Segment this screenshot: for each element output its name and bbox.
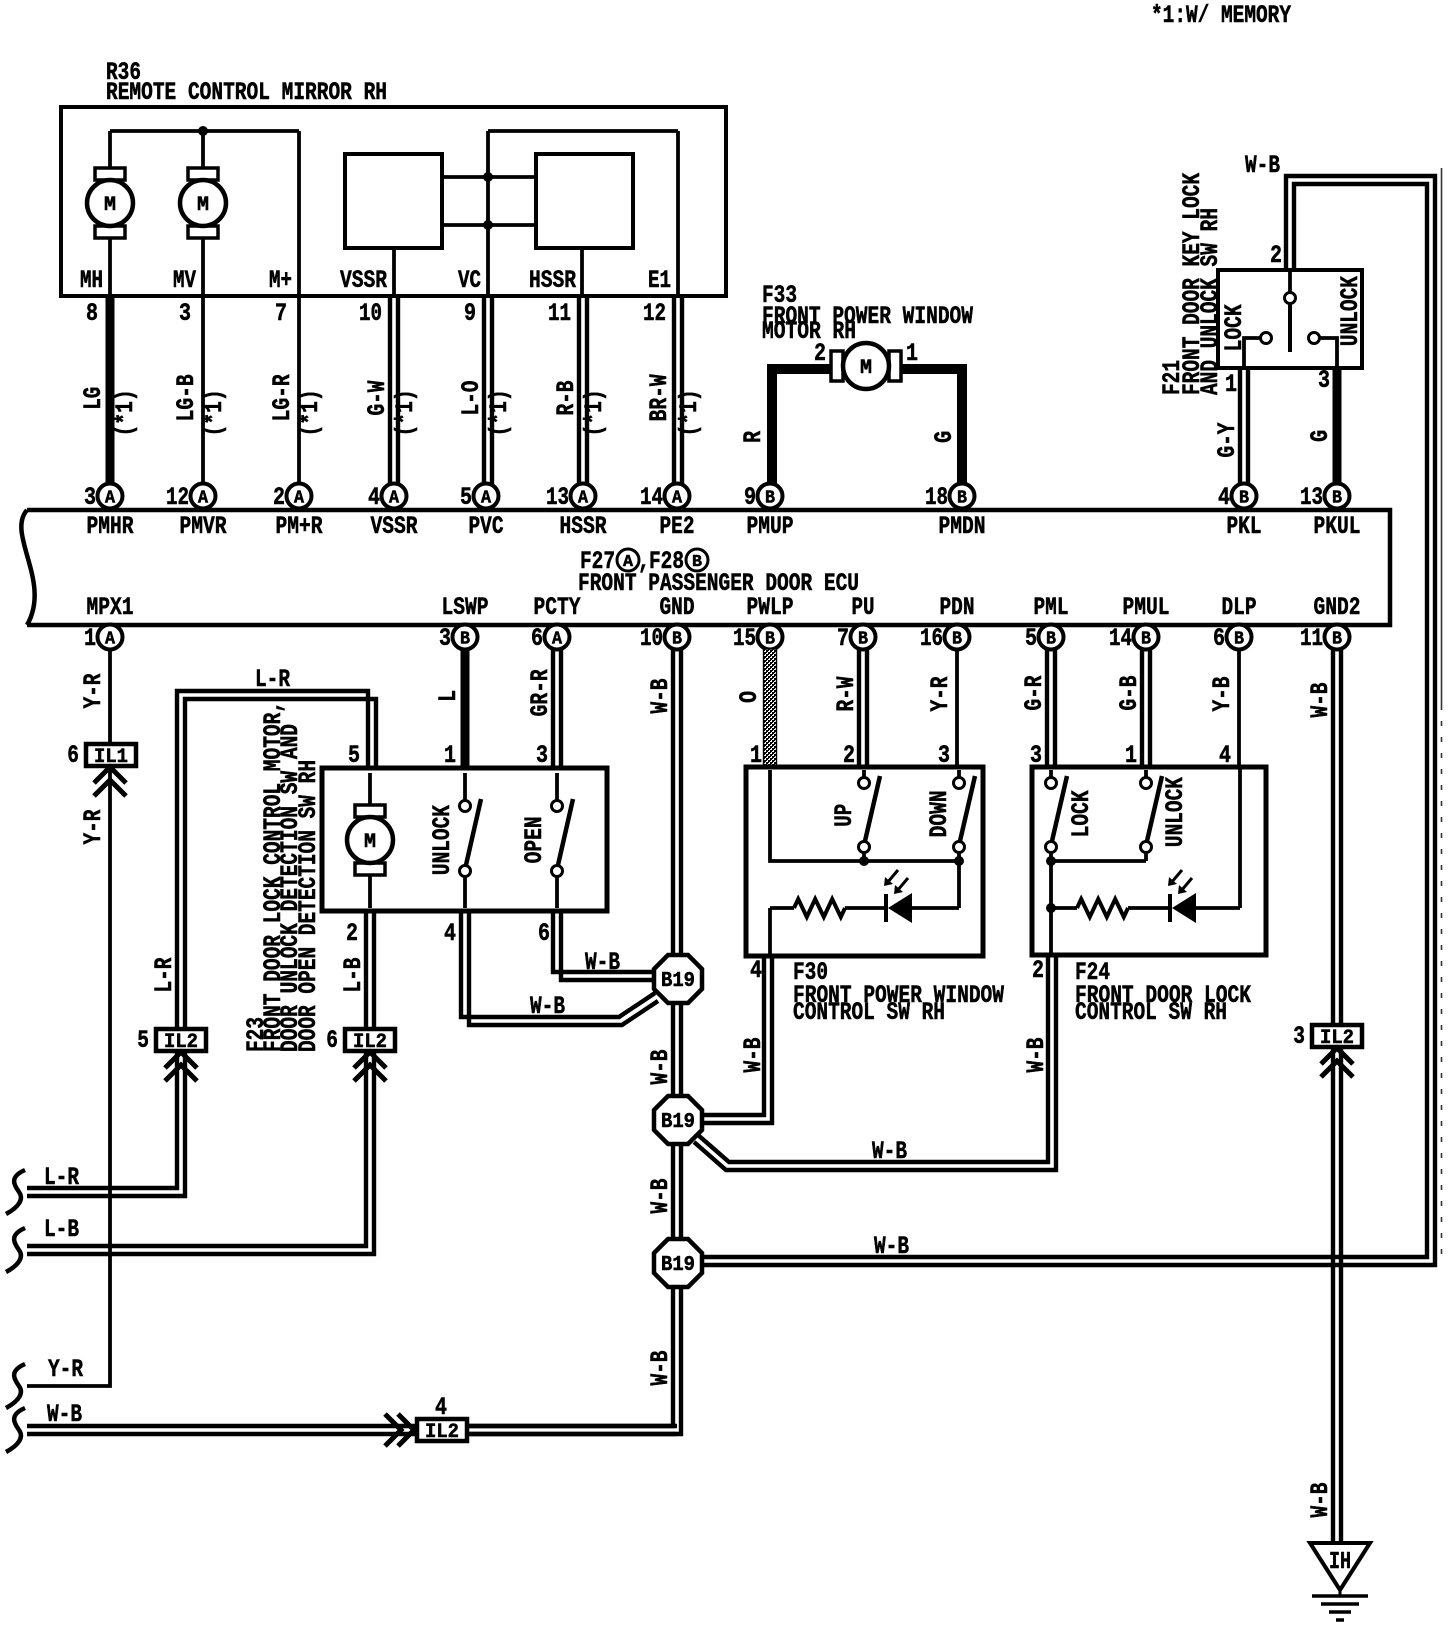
wire W-B double (GND2 down to ground): [1331, 649, 1335, 1543]
svg-text:PDN: PDN: [940, 593, 975, 622]
svg-text:UP: UP: [830, 804, 859, 827]
svg-text:REMOTE CONTROL MIRROR RH: REMOTE CONTROL MIRROR RH: [106, 78, 387, 107]
svg-text:DLP: DLP: [1222, 593, 1257, 622]
svg-text:LG: LG: [79, 387, 108, 410]
svg-text:G: G: [1306, 430, 1335, 442]
wire between blocks upper: [442, 175, 536, 179]
svg-text:PMHR: PMHR: [87, 512, 134, 541]
svg-text:7: 7: [837, 624, 849, 653]
svg-text:5: 5: [348, 741, 360, 770]
svg-text:PML: PML: [1034, 593, 1069, 622]
svg-text:MH: MH: [80, 266, 103, 295]
F24 front door lock control sw RH box: [1032, 767, 1266, 955]
ECU bottom pin 6(B) DLP: [1227, 625, 1252, 650]
svg-text:5: 5: [1025, 624, 1037, 653]
ECU front passenger door ECU box: [27, 510, 1390, 625]
svg-text:B: B: [1332, 489, 1342, 509]
wire G thick: [1333, 368, 1342, 484]
F23 front door lock control motor box: [322, 768, 607, 911]
ECU bottom pin 16(B) PDN: [945, 625, 970, 650]
F21 front door key lock and unlock sw RH box: [1218, 270, 1362, 368]
svg-text:6: 6: [538, 919, 550, 948]
wire L-B double from IL2 down to left edge: [27, 1051, 366, 1246]
svg-text:12: 12: [166, 483, 189, 512]
svg-text:4: 4: [444, 919, 456, 948]
ECU bottom pin 7(B) PU: [851, 625, 876, 650]
svg-text:M: M: [364, 831, 376, 854]
motor F33: [831, 351, 843, 381]
svg-text:B: B: [1046, 630, 1056, 650]
IL2-6 chevrons: [354, 1052, 386, 1068]
svg-text:VSSR: VSSR: [340, 266, 387, 295]
svg-text:L-O: L-O: [457, 381, 486, 416]
svg-text:2: 2: [843, 741, 855, 770]
svg-text:5: 5: [137, 1026, 149, 1055]
svg-text:E1: E1: [648, 266, 671, 295]
svg-text:6: 6: [326, 1026, 338, 1055]
junction UP common: [859, 856, 869, 866]
IL2-4 chevrons: [398, 1414, 414, 1446]
wire motor MH top riser: [108, 131, 112, 168]
F24 UNLOCK switch: [1144, 770, 1148, 777]
svg-text:L: L: [434, 690, 463, 702]
svg-text:6: 6: [67, 741, 79, 770]
svg-text:L-B: L-B: [44, 1215, 79, 1244]
svg-text:Y-R: Y-R: [48, 1355, 83, 1384]
svg-text:A: A: [481, 489, 491, 509]
svg-text:2: 2: [1270, 241, 1282, 270]
svg-text:B: B: [1332, 630, 1342, 650]
LED F30 illumination: [884, 894, 888, 922]
svg-text:PKUL: PKUL: [1314, 512, 1361, 541]
svg-text:A: A: [672, 489, 682, 509]
F24 common rail: [1051, 859, 1146, 863]
svg-text:UNLOCK: UNLOCK: [1336, 276, 1365, 346]
ground IH triangle: [1310, 1543, 1370, 1590]
wire W-B B19 2-3: [671, 1143, 675, 1240]
wire mirror motors common top: [110, 129, 299, 133]
svg-text:LSWP: LSWP: [442, 593, 489, 622]
wire VC riser: [486, 131, 490, 296]
svg-text:L-R: L-R: [150, 958, 179, 993]
svg-text:G-B: G-B: [1115, 676, 1144, 711]
svg-text:3: 3: [1030, 741, 1042, 770]
svg-text:GND2: GND2: [1314, 593, 1361, 622]
svg-text:M: M: [197, 194, 209, 217]
svg-text:2: 2: [814, 339, 826, 368]
svg-text:Y-R: Y-R: [79, 810, 108, 845]
F30 UP switch: [862, 770, 866, 777]
svg-text:A: A: [552, 630, 562, 650]
LED F24 illumination: [1168, 894, 1172, 922]
svg-text:A: A: [105, 630, 115, 650]
junction motors common: [198, 126, 208, 136]
F30 front power window control sw RH box: [746, 767, 983, 956]
svg-text:1: 1: [444, 741, 456, 770]
svg-text:VSSR: VSSR: [371, 512, 418, 541]
svg-text:4: 4: [750, 956, 762, 985]
wire W-B double (GND to B19): [671, 649, 675, 957]
svg-text:11: 11: [548, 299, 571, 328]
wire G-R double (PML): [1045, 649, 1049, 767]
svg-text:6: 6: [531, 624, 543, 653]
continuation squiggle W-B: [6, 1408, 25, 1452]
svg-text:CONTROL SW RH: CONTROL SW RH: [793, 998, 945, 1027]
svg-text:3: 3: [179, 299, 191, 328]
svg-text:M+: M+: [269, 266, 292, 295]
svg-text:LG-B: LG-B: [172, 374, 201, 421]
junction DOWN common: [954, 856, 964, 866]
svg-text:B: B: [1239, 489, 1249, 509]
wire L-B double from F23 pin2: [364, 911, 368, 1029]
svg-text:PE2: PE2: [660, 512, 695, 541]
wire W-B from F21 pin2 around right edge to B19: [702, 184, 1427, 1257]
svg-text:9: 9: [464, 299, 476, 328]
IL2-3 chevrons: [1321, 1048, 1353, 1064]
svg-text:B19: B19: [661, 1111, 695, 1134]
svg-text:GND: GND: [660, 593, 695, 622]
junction connector B19 no.2: [654, 1096, 702, 1144]
wire M+ riser: [297, 131, 301, 296]
svg-text:1: 1: [1125, 741, 1137, 770]
wire VC to E1 top: [488, 129, 678, 133]
ground symbol hatch: [1339, 1590, 1342, 1596]
svg-text:R: R: [739, 431, 768, 443]
continuation squiggle L-R: [6, 1170, 25, 1214]
svg-text:B: B: [765, 489, 775, 509]
svg-text:7: 7: [275, 299, 287, 328]
svg-text:6: 6: [1213, 624, 1225, 653]
svg-text:3: 3: [84, 483, 96, 512]
mirror motor MV: [188, 168, 218, 180]
connector 6 IL2: [345, 1029, 395, 1051]
svg-text:4: 4: [435, 1393, 447, 1422]
F30 pin1 rail: [770, 770, 959, 861]
svg-text:MV: MV: [173, 266, 196, 295]
junction connector B19 no.3: [654, 1239, 702, 1287]
svg-text:3: 3: [938, 741, 950, 770]
svg-text:PWLP: PWLP: [747, 593, 794, 622]
svg-text:M: M: [104, 194, 116, 217]
svg-text:IH: IH: [1329, 1549, 1351, 1576]
svg-text:1: 1: [84, 624, 96, 653]
svg-text:B: B: [1234, 630, 1244, 650]
svg-text:B: B: [1141, 630, 1151, 650]
svg-text:14: 14: [1109, 624, 1132, 653]
wire L thick (LSWP): [461, 649, 470, 768]
wire O thick shaded (PWLP): [764, 649, 777, 767]
svg-text:G-R: G-R: [1020, 676, 1049, 711]
svg-text:16: 16: [920, 624, 943, 653]
wire GR-R double (PCTY): [551, 649, 555, 768]
wire W-B IL2-4 to B19 riser: [467, 1424, 677, 1428]
svg-text:PMUP: PMUP: [747, 512, 794, 541]
svg-text:Y-B: Y-B: [1208, 677, 1237, 712]
wire W-B F30 pin4 to B19-2: [701, 956, 764, 1115]
svg-text:OPEN: OPEN: [520, 816, 549, 863]
R36 remote control mirror RH box: [61, 107, 726, 296]
svg-text:Y-R: Y-R: [79, 674, 108, 709]
svg-text:HSSR: HSSR: [560, 512, 607, 541]
svg-text:5: 5: [460, 483, 472, 512]
svg-text:W-B: W-B: [872, 1137, 907, 1166]
ECU top pin 13(B) PKUL: [1325, 484, 1350, 509]
F23 motor stub top: [368, 773, 372, 805]
svg-text:B: B: [952, 630, 962, 650]
junction VC upper: [483, 172, 493, 182]
wire G-W (VSSR) double: [388, 296, 392, 484]
ECU top pin 18(B) PMDN: [950, 484, 975, 509]
svg-text:G-Y: G-Y: [1213, 423, 1242, 458]
svg-text:(*1): (*1): [200, 389, 229, 436]
svg-text:A: A: [389, 489, 399, 509]
ECU bottom pin 14(B) PMUL: [1134, 625, 1159, 650]
svg-text:A: A: [578, 489, 588, 509]
svg-text:PCTY: PCTY: [534, 593, 581, 622]
F23 door lock motor: [355, 805, 385, 817]
svg-text:18: 18: [925, 483, 948, 512]
svg-text:(*1): (*1): [675, 389, 704, 436]
svg-text:W-B: W-B: [585, 948, 620, 977]
svg-text:B: B: [460, 630, 470, 650]
svg-text:13: 13: [1300, 483, 1323, 512]
svg-text:B19: B19: [661, 970, 695, 993]
ECU top pin 4(A) VSSR: [382, 484, 407, 509]
ECU bottom pin 10(B) GND: [665, 625, 690, 650]
wire G-Y double: [1238, 368, 1242, 484]
svg-text:(*1): (*1): [391, 389, 420, 436]
svg-text:W-B: W-B: [646, 1050, 675, 1085]
svg-text:10: 10: [359, 299, 382, 328]
svg-text:PM+R: PM+R: [276, 512, 323, 541]
F30 illumination row: [957, 861, 961, 908]
resistor F30: [794, 899, 845, 917]
wire R thick (F33 pin2 to PMUP): [772, 369, 834, 484]
svg-text:PKL: PKL: [1227, 512, 1262, 541]
wire R-W double (PU): [857, 649, 861, 767]
wire W-B B19-3 down to IL2-4: [466, 1287, 673, 1426]
wire between blocks lower: [442, 223, 536, 227]
svg-text:BR-W: BR-W: [645, 374, 674, 421]
F21 UNLOCK contact: [1309, 333, 1320, 344]
connector 4 IL2: [417, 1419, 467, 1441]
svg-text:W-B: W-B: [646, 679, 675, 714]
svg-text:2: 2: [346, 919, 358, 948]
F30 DOWN switch: [957, 770, 961, 777]
svg-text:W-B: W-B: [874, 1232, 909, 1261]
svg-text:B: B: [957, 489, 967, 509]
svg-text:PMUL: PMUL: [1123, 593, 1170, 622]
svg-text:IL2: IL2: [425, 1421, 459, 1444]
svg-text:HSSR: HSSR: [529, 266, 576, 295]
junction VC lower: [483, 220, 493, 230]
svg-text:W-B: W-B: [530, 992, 565, 1021]
F21 center switch: [1288, 270, 1292, 292]
sensor block HSSR: [536, 154, 633, 248]
wire L-R double from F23 pin5 up-left-down to IL2: [177, 691, 368, 1029]
svg-text:B: B: [858, 630, 868, 650]
continuation squiggle L-B: [6, 1228, 25, 1272]
ECU top pin 9(B) PMUP: [758, 484, 783, 509]
F23 motor stub bottom: [368, 875, 372, 908]
svg-text:11: 11: [1300, 624, 1323, 653]
svg-text:1: 1: [906, 339, 918, 368]
ECU top pin 12(A) PMVR: [191, 484, 216, 509]
ECU top pin 4(B) PKL: [1232, 484, 1257, 509]
wire LG thick (MH): [106, 296, 115, 484]
wire MV to box edge: [201, 238, 205, 296]
svg-text:FRONT PASSENGER DOOR ECU: FRONT PASSENGER DOOR ECU: [578, 569, 859, 598]
svg-text:1: 1: [750, 741, 762, 770]
svg-text:PU: PU: [852, 593, 875, 622]
svg-text:W-B: W-B: [1306, 1483, 1335, 1518]
svg-text:W-B: W-B: [646, 1179, 675, 1214]
resistor F24: [1077, 899, 1128, 917]
svg-text:O: O: [735, 691, 764, 703]
svg-text:A: A: [198, 489, 208, 509]
scan noise line right edge: [1441, 168, 1443, 705]
ECU top pin 2(A) PM+R: [287, 484, 312, 509]
svg-text:13: 13: [546, 483, 569, 512]
svg-text:L-R: L-R: [44, 1163, 79, 1192]
sensor block VSSR: [345, 154, 442, 248]
wire W-B left edge to IL2-4: [27, 1424, 417, 1428]
wire Y-R from MPX1 down and left: [27, 649, 110, 1386]
svg-text:W-B: W-B: [1022, 1038, 1051, 1073]
svg-text:2: 2: [1032, 956, 1044, 985]
IL1 chevrons: [94, 767, 126, 783]
svg-text:MOTOR RH: MOTOR RH: [762, 317, 856, 346]
svg-text:PMDN: PMDN: [939, 512, 986, 541]
svg-text:(*1): (*1): [580, 389, 609, 436]
wire motor MV top riser: [201, 131, 205, 168]
svg-text:UNLOCK: UNLOCK: [1161, 777, 1190, 847]
F23 UNLOCK detection switch: [463, 773, 467, 800]
svg-text:(*1): (*1): [485, 389, 514, 436]
svg-text:L-R: L-R: [255, 665, 290, 694]
svg-text:PVC: PVC: [469, 512, 504, 541]
ECU top pin 14(A) PE2: [665, 484, 690, 509]
wire G-B double (PMUL): [1140, 649, 1144, 767]
wire HSSR block drop: [580, 248, 584, 296]
svg-text:15: 15: [733, 624, 756, 653]
svg-text:A: A: [294, 489, 304, 509]
svg-text:3: 3: [1318, 366, 1330, 395]
svg-text:10: 10: [640, 624, 663, 653]
svg-text:LOCK: LOCK: [1067, 790, 1096, 837]
junction connector B19 no.1: [654, 955, 702, 1003]
ECU bottom pin 1(A) MPX1: [98, 625, 123, 650]
connector 5 IL2: [156, 1029, 206, 1051]
svg-text:R-W: R-W: [832, 677, 861, 712]
wire LG-R (M+): [297, 296, 301, 484]
svg-text:LOCK: LOCK: [1220, 304, 1249, 351]
svg-text:4: 4: [368, 483, 380, 512]
wire W-B F24 pin2 to B19-2: [698, 956, 1048, 1162]
F24 LOCK switch: [1049, 770, 1053, 777]
svg-text:3: 3: [536, 741, 548, 770]
wire MH to box edge: [108, 238, 112, 296]
svg-text:W-B: W-B: [739, 1038, 768, 1073]
ECU bottom pin 5(B) PML: [1039, 625, 1064, 650]
svg-text:4: 4: [1219, 741, 1231, 770]
wire L-R double from IL2 down to left edge: [27, 1051, 177, 1188]
wire Y-B (DLP): [1237, 649, 1241, 767]
wire L-O (VC) double: [482, 296, 486, 484]
svg-text:*1:W/ MEMORY: *1:W/ MEMORY: [1151, 1, 1291, 30]
svg-text:DOWN: DOWN: [925, 790, 954, 837]
wire VSSR block drop: [392, 248, 396, 296]
wire BR-W (E1) double: [672, 296, 676, 484]
svg-text:3: 3: [439, 624, 451, 653]
F24 pin4 riser: [1238, 767, 1242, 908]
svg-text:B: B: [765, 630, 775, 650]
svg-text:L-B: L-B: [339, 958, 368, 993]
wire G thick (F33 pin1 to PMDN): [898, 369, 962, 484]
svg-text:W-B: W-B: [47, 1400, 82, 1429]
svg-text:Y-R: Y-R: [926, 677, 955, 712]
ECU top pin 3(A) PMHR: [98, 484, 123, 509]
svg-text:G-W: G-W: [363, 381, 392, 416]
svg-text:M: M: [860, 357, 872, 380]
svg-text:2: 2: [273, 483, 285, 512]
F24 illumination row: [1051, 906, 1077, 910]
svg-text:B: B: [672, 630, 682, 650]
continuation squiggle Y-R: [6, 1364, 25, 1408]
svg-text:(*1): (*1): [111, 389, 140, 436]
wire W-B from F23 pin6 to B19: [553, 911, 655, 972]
wire W-B B19 1-2: [671, 1003, 675, 1097]
svg-text:9: 9: [744, 483, 756, 512]
svg-text:VC: VC: [458, 266, 481, 295]
svg-text:PMVR: PMVR: [180, 512, 227, 541]
svg-text:W-B: W-B: [1245, 151, 1280, 180]
svg-text:8: 8: [86, 299, 98, 328]
ECU bottom pin 11(B) GND2: [1325, 625, 1350, 650]
svg-text:GR-R: GR-R: [526, 669, 555, 716]
svg-text:R-B: R-B: [552, 381, 581, 416]
svg-text:DOOR OPEN DETECTION SW RH: DOOR OPEN DETECTION SW RH: [294, 760, 323, 1052]
svg-text:4: 4: [1218, 483, 1230, 512]
ECU bottom pin 3(B) LSWP: [453, 625, 478, 650]
svg-text:B19: B19: [661, 1254, 695, 1277]
wire R-B (HSSR) double: [577, 296, 581, 484]
ECU bottom pin 15(B) PWLP: [758, 625, 783, 650]
ECU top pin 13(A) HSSR: [571, 484, 596, 509]
svg-text:1: 1: [1225, 370, 1237, 399]
svg-text:MPX1: MPX1: [87, 593, 134, 622]
connector 6 IL1: [86, 744, 136, 766]
svg-text:CONTROL SW RH: CONTROL SW RH: [1075, 998, 1227, 1027]
ECU top pin 5(A) PVC: [474, 484, 499, 509]
F30 pin4 drop: [768, 908, 772, 954]
svg-text:UNLOCK: UNLOCK: [428, 805, 457, 875]
connector 3 IL2: [1312, 1025, 1362, 1047]
svg-text:W-B: W-B: [1306, 683, 1335, 718]
wire LG-B (MV): [201, 296, 205, 484]
svg-text:3: 3: [1293, 1022, 1305, 1051]
F23 OPEN detection switch: [555, 773, 559, 800]
ECU bottom pin 6(A) PCTY: [545, 625, 570, 650]
svg-text:LG-R: LG-R: [268, 374, 297, 421]
svg-text:12: 12: [643, 299, 666, 328]
svg-text:W-B: W-B: [646, 1351, 675, 1386]
F21 LOCK contact: [1261, 333, 1272, 344]
wire Y-R (PDN): [955, 649, 959, 767]
svg-text:(*1): (*1): [296, 389, 325, 436]
IL2-5 chevrons: [165, 1052, 197, 1068]
svg-text:G: G: [930, 431, 959, 443]
